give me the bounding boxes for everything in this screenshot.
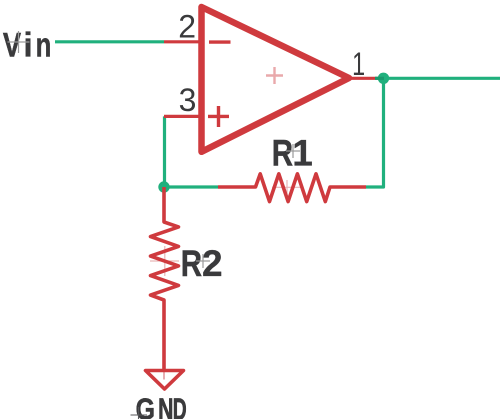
pin 1 (output) — [349, 77, 378, 80]
svg-text:2: 2 — [202, 243, 223, 284]
wire R1 right to corner and up to output — [366, 78, 384, 187]
text anchor crosshair (Vin) — [8, 31, 30, 53]
ground symbol triangle — [146, 371, 184, 390]
svg-text:1: 1 — [352, 46, 365, 82]
darker wire dash in output junction — [375, 77, 384, 80]
wire output to right edge — [378, 77, 500, 80]
wire node A to R1 left — [165, 185, 219, 188]
label GND — [136, 391, 187, 419]
GND pin stub (faint) — [163, 371, 165, 380]
pin 2 (inverting input) — [164, 40, 201, 43]
text anchor crosshair (R1) — [286, 144, 300, 158]
junction output node (right) — [378, 73, 389, 84]
op-amp non-inverting input marker (plus) — [208, 106, 229, 127]
svg-text:3: 3 — [179, 82, 197, 118]
svg-text:1: 1 — [292, 133, 313, 174]
op-amp U1 body — [202, 7, 350, 152]
resistor R1 anchor crosshair — [272, 180, 302, 195]
pin 3 (non-inverting input) — [164, 115, 201, 118]
svg-text:R: R — [272, 133, 293, 174]
svg-text:N: N — [158, 391, 173, 419]
label R2 — [181, 243, 223, 284]
op-amp center anchor crosshair — [266, 67, 283, 84]
text anchor crosshair (R2) — [196, 254, 210, 268]
svg-text:R: R — [181, 243, 202, 284]
wire pin 3 vertical to node A — [163, 116, 166, 187]
label Vin — [3, 27, 51, 65]
op-amp inverting input marker (minus) — [209, 40, 231, 43]
text anchor crosshair (GND) — [131, 407, 148, 419]
wire Vin to pin 2 — [55, 40, 164, 43]
resistor R2 body (zigzag) — [151, 187, 179, 369]
svg-text:n: n — [36, 27, 52, 65]
resistor R1 body (zigzag) — [218, 174, 366, 202]
svg-text:2: 2 — [178, 8, 196, 44]
label R1 — [272, 133, 313, 174]
resistor R2 anchor crosshair — [150, 246, 179, 276]
svg-text:i: i — [23, 27, 33, 65]
junction node A (left) — [158, 181, 169, 192]
svg-text:D: D — [173, 391, 187, 419]
